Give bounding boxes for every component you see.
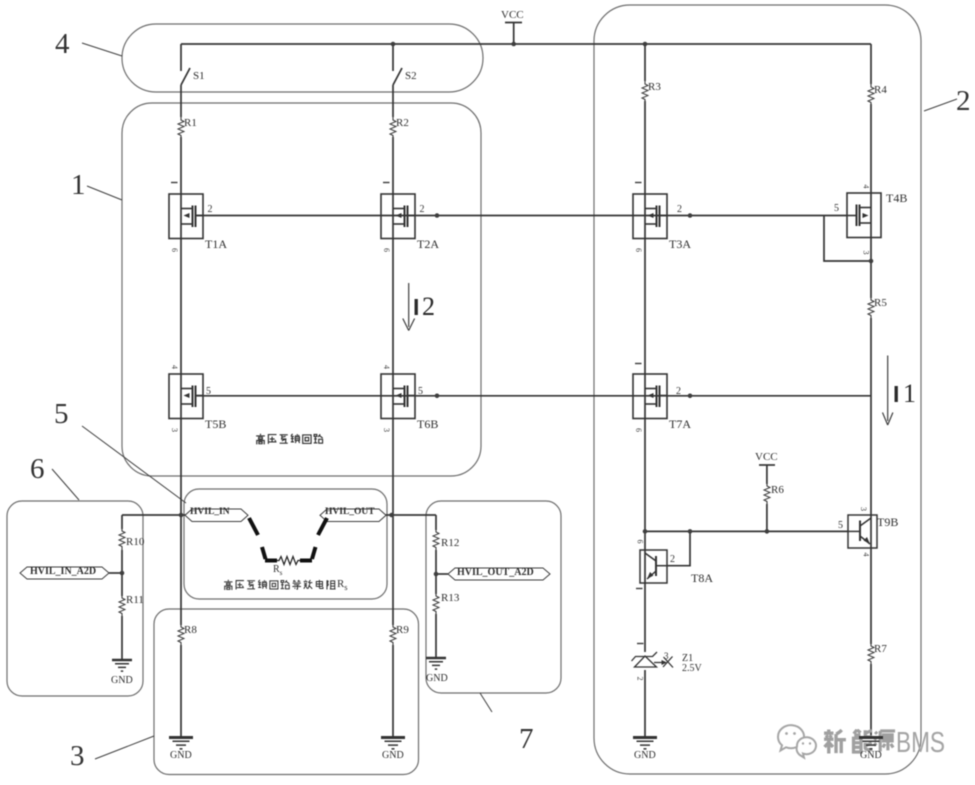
svg-text:3: 3	[862, 251, 871, 255]
svg-text:4: 4	[382, 365, 391, 369]
svg-text:3: 3	[859, 507, 868, 511]
svg-text:6: 6	[636, 540, 645, 544]
svg-text:3: 3	[382, 428, 391, 432]
svg-text:6: 6	[170, 248, 179, 252]
svg-text:2: 2	[636, 677, 645, 681]
svg-text:6: 6	[634, 428, 643, 432]
svg-text:6: 6	[382, 248, 391, 252]
svg-text:4: 4	[170, 365, 179, 369]
svg-text:4: 4	[862, 185, 871, 189]
svg-text:6: 6	[634, 248, 643, 252]
svg-text:4: 4	[862, 553, 871, 557]
svg-text:3: 3	[170, 428, 179, 432]
